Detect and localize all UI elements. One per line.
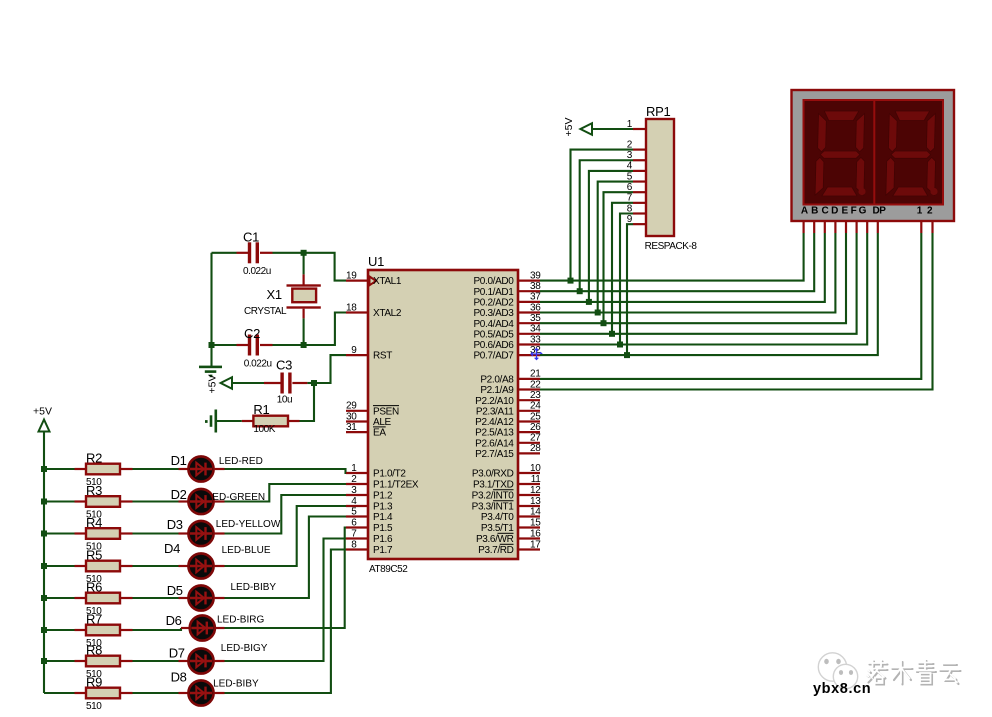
svg-text:P2.6/A14: P2.6/A14 — [475, 438, 514, 449]
pin 16 P3.6/WR — [518, 537, 540, 539]
svg-text:30: 30 — [346, 411, 357, 422]
wire RST net — [314, 355, 346, 383]
7-segment digit 2 — [886, 111, 937, 196]
LED D2 LED-GREEN — [188, 489, 213, 514]
resistor R4 — [75, 532, 87, 534]
svg-text:37: 37 — [530, 292, 541, 303]
svg-text:1: 1 — [351, 463, 357, 474]
junction rail-R3 — [41, 499, 47, 505]
svg-text:33: 33 — [530, 334, 541, 345]
svg-text:0.022u: 0.022u — [244, 359, 272, 370]
pin 7 P1.6 — [346, 537, 368, 539]
resistor R9 — [75, 692, 87, 694]
pin 5 P1.4 — [346, 515, 368, 517]
resistor R7 — [75, 629, 87, 631]
pin 11 P3.1/TXD — [518, 483, 540, 485]
pin 22 P2.1/A9 — [518, 388, 540, 390]
node X1/C2 junction — [301, 342, 307, 348]
wire P2.0 net — [540, 233, 921, 379]
junction rail-R4 — [41, 531, 47, 537]
svg-text:P2.1/A9: P2.1/A9 — [480, 385, 514, 396]
wire P0.7 net — [540, 233, 878, 355]
svg-text:PSEN: PSEN — [373, 406, 399, 417]
svg-text:U1: U1 — [368, 254, 384, 269]
pin 6 P1.5 — [346, 526, 368, 528]
svg-text:C3: C3 — [276, 358, 292, 373]
resistor R1 — [288, 420, 300, 422]
pin 18 XTAL2 — [346, 311, 368, 313]
capacitor C2 — [212, 344, 237, 346]
svg-text:26: 26 — [530, 422, 541, 433]
svg-text:0.022u: 0.022u — [243, 266, 271, 277]
svg-text:P0.7/AD7: P0.7/AD7 — [473, 351, 514, 362]
pin 3 P1.2 — [346, 494, 368, 496]
svg-text:A: A — [801, 206, 808, 217]
svg-text:D5: D5 — [167, 583, 183, 598]
svg-text:P3.2/INT0: P3.2/INT0 — [472, 491, 515, 502]
pin 32 P0.7/AD7 — [518, 354, 540, 356]
junction rail-R8 — [41, 658, 47, 664]
pin segment G — [866, 221, 868, 233]
svg-text:2: 2 — [927, 206, 933, 217]
node P0.0 junction — [568, 278, 574, 284]
svg-text:R2: R2 — [86, 451, 102, 466]
pin 34 P0.5/AD5 — [518, 333, 540, 335]
node P0.4 junction — [601, 320, 607, 326]
pin 1 RP1 — [633, 128, 646, 130]
svg-text:P2.2/A10: P2.2/A10 — [475, 396, 514, 407]
svg-text:27: 27 — [530, 433, 541, 444]
node RST/C3/R1 junction — [311, 380, 317, 386]
svg-text:P0.0/AD0: P0.0/AD0 — [473, 276, 514, 287]
svg-text:D8: D8 — [171, 670, 187, 685]
node P0.5 junction — [609, 331, 615, 337]
wire P0.3 net — [540, 233, 835, 313]
svg-text:8: 8 — [351, 539, 357, 550]
wire R2 to D1 — [133, 468, 179, 470]
svg-text:16: 16 — [530, 528, 541, 539]
pin 2 P1.1/T2EX — [346, 483, 368, 485]
pin 29 PSEN — [346, 410, 368, 412]
capacitor C3 — [232, 382, 264, 384]
op-amp U1 AT89C52 body — [368, 270, 518, 559]
svg-text:P3.0/RXD: P3.0/RXD — [472, 469, 514, 480]
pin 6 RP1 — [633, 191, 646, 193]
svg-text:RESPACK-8: RESPACK-8 — [645, 241, 698, 252]
wire D2 to U1 pin 2 — [214, 500, 225, 502]
LED D7 LED-BIGY — [188, 648, 213, 673]
LED D5 LED-BIBY — [188, 585, 213, 610]
svg-text:LED-RED: LED-RED — [219, 456, 263, 467]
svg-text:15: 15 — [530, 517, 541, 528]
resistor R5 — [75, 565, 87, 567]
wire P0.1 net — [540, 233, 814, 291]
svg-text:P1.2: P1.2 — [373, 491, 393, 502]
node P0.1 junction — [577, 288, 583, 294]
svg-text:29: 29 — [346, 401, 357, 412]
pin 4 RP1 — [633, 170, 646, 172]
svg-text:36: 36 — [530, 302, 541, 313]
svg-text:P3.4/T0: P3.4/T0 — [481, 512, 514, 523]
wire D3 to U1 pin 3 — [214, 532, 225, 534]
svg-text:P0.6/AD6: P0.6/AD6 — [473, 340, 514, 351]
pin 4 P1.3 — [346, 505, 368, 507]
svg-text:D: D — [831, 206, 838, 217]
svg-text:P2.4/A12: P2.4/A12 — [475, 417, 514, 428]
svg-text:LED-BIRG: LED-BIRG — [217, 615, 264, 626]
wire R9 to D8 — [133, 692, 179, 694]
svg-text:D3: D3 — [167, 517, 183, 532]
pin 8 RP1 — [633, 212, 646, 214]
pin 38 P0.1/AD1 — [518, 290, 540, 292]
capacitor C1 — [212, 252, 237, 254]
svg-text:+5V: +5V — [563, 118, 575, 137]
wire R1 to ground — [217, 420, 242, 422]
move cursor mark pin 32 — [531, 349, 542, 360]
LED D3 LED-YELLOW — [188, 521, 213, 546]
svg-text:12: 12 — [530, 485, 541, 496]
svg-text:P0.1/AD1: P0.1/AD1 — [473, 287, 514, 298]
svg-text:LED-BLUE: LED-BLUE — [222, 545, 271, 556]
7-segment display window — [804, 100, 944, 205]
node C1/X1 junction — [301, 250, 307, 256]
LED D6 LED-BIRG — [190, 615, 215, 640]
svg-text:P3.3/INT1: P3.3/INT1 — [472, 502, 515, 513]
svg-text:R6: R6 — [86, 580, 102, 595]
wire RP1 tap 3 — [580, 160, 633, 291]
resistor R3 — [75, 500, 87, 502]
junction rail-R5 — [41, 563, 47, 569]
pin 21 P2.0/A8 — [518, 378, 540, 380]
node P0.3 junction — [595, 310, 601, 316]
pin segment F — [855, 221, 857, 233]
svg-text:P3.5/T1: P3.5/T1 — [481, 523, 514, 534]
wire RP1 tap 2 — [571, 150, 634, 281]
svg-text:G: G — [859, 206, 867, 217]
pin 14 P3.4/T0 — [518, 515, 540, 517]
svg-text:C2: C2 — [244, 326, 260, 341]
pin 10 P3.0/RXD — [518, 472, 540, 474]
svg-text:21: 21 — [530, 369, 541, 380]
svg-text:XTAL2: XTAL2 — [373, 308, 402, 319]
svg-text:28: 28 — [530, 443, 541, 454]
pin 39 P0.0/AD0 — [518, 280, 540, 282]
wire R3 to D2 — [133, 500, 179, 502]
resistor R6 — [75, 597, 87, 599]
svg-text:39: 39 — [530, 270, 541, 281]
wire D8 to U1 pin 8 — [214, 692, 225, 694]
power arrow +5V at C3 — [221, 377, 232, 389]
wire D7 to U1 pin 7 — [214, 660, 225, 662]
svg-text:17: 17 — [530, 539, 541, 550]
wire X1 to C2 row — [303, 318, 305, 345]
wire P2.1 net — [540, 233, 933, 390]
pin segment A — [802, 221, 804, 233]
svg-text:D4: D4 — [164, 541, 180, 556]
wire C3 junction to R1 — [300, 383, 315, 421]
svg-text:P1.4: P1.4 — [373, 512, 393, 523]
svg-text:2: 2 — [351, 474, 357, 485]
svg-text:LED-BIBY: LED-BIBY — [231, 582, 277, 593]
svg-text:P0.2/AD2: P0.2/AD2 — [473, 298, 514, 309]
svg-text:+5V: +5V — [33, 406, 52, 418]
wire R4 to D3 — [133, 532, 179, 534]
pin 3 RP1 — [633, 159, 646, 161]
pin 24 P2.3/A11 — [518, 410, 540, 412]
pin 28 P2.7/A15 — [518, 452, 540, 454]
wire P0.0 net — [540, 233, 804, 281]
svg-text:XTAL1: XTAL1 — [373, 276, 402, 287]
svg-text:P2.0/A8: P2.0/A8 — [480, 375, 514, 386]
pin 35 P0.4/AD4 — [518, 322, 540, 324]
pin 15 P3.5/T1 — [518, 526, 540, 528]
svg-text:38: 38 — [530, 281, 541, 292]
svg-text:13: 13 — [530, 496, 541, 507]
LED D1 LED-RED — [188, 456, 213, 481]
power arrow +5V — [39, 420, 50, 432]
wire left rail C1-C2 — [210, 253, 212, 345]
svg-text:510: 510 — [86, 701, 102, 712]
svg-text:LED-YELLOW: LED-YELLOW — [216, 519, 281, 530]
svg-text:4: 4 — [351, 496, 357, 507]
node P0.6 junction — [617, 342, 623, 348]
wire RP1 tap 9 — [627, 224, 633, 355]
pin segment DP — [877, 221, 879, 233]
svg-text:P1.3: P1.3 — [373, 502, 393, 513]
svg-text:P0.3/AD3: P0.3/AD3 — [473, 308, 514, 319]
svg-text:RST: RST — [373, 351, 392, 362]
svg-text:C: C — [821, 206, 828, 217]
svg-text:100K: 100K — [253, 424, 275, 435]
pin 37 P0.2/AD2 — [518, 301, 540, 303]
svg-text:P2.7/A15: P2.7/A15 — [475, 449, 514, 460]
svg-text:R1: R1 — [253, 402, 269, 417]
svg-text:ybx8.cn: ybx8.cn — [813, 681, 871, 697]
svg-text:+5V: +5V — [207, 375, 219, 394]
wire R6 to D5 — [133, 597, 179, 599]
wire rail to R3 — [44, 500, 75, 502]
svg-text:RP1: RP1 — [646, 104, 670, 119]
junction rail-R7 — [41, 627, 47, 633]
wire rail to R2 — [44, 468, 75, 470]
wire RP1 tap 4 — [589, 171, 633, 302]
svg-text:R3: R3 — [86, 483, 102, 498]
wire rail to R6 — [44, 597, 75, 599]
svg-text:D1: D1 — [171, 453, 187, 468]
svg-text:P3.7/RD: P3.7/RD — [478, 545, 513, 556]
wire D6 to U1 pin 6 — [215, 627, 224, 629]
wire RP1 tap 5 — [598, 182, 633, 313]
resistor pack RP1 — [646, 119, 674, 236]
pin 36 P0.3/AD3 — [518, 311, 540, 313]
7-segment display frame — [792, 90, 955, 221]
wire P0.6 net — [540, 233, 867, 345]
pin digit 2 — [931, 221, 933, 233]
svg-text:10: 10 — [530, 463, 541, 474]
pin segment B — [813, 221, 815, 233]
watermark text — [868, 661, 961, 685]
node rail/C2 junction — [209, 342, 215, 348]
wire D5 to U1 pin 5 — [214, 597, 225, 599]
pin 2 RP1 — [633, 149, 646, 151]
svg-text:14: 14 — [530, 506, 541, 517]
pin 13 P3.3/INT1 — [518, 505, 540, 507]
svg-text:P1.1/T2EX: P1.1/T2EX — [373, 480, 419, 491]
ground below C2 — [210, 345, 212, 366]
svg-text:AT89C52: AT89C52 — [369, 564, 408, 575]
svg-text:LED-BIGY: LED-BIGY — [221, 643, 268, 654]
svg-text:7: 7 — [351, 528, 357, 539]
wire rail to R4 — [44, 532, 75, 534]
wire P0.2 net — [540, 233, 825, 302]
svg-text:P2.3/A11: P2.3/A11 — [476, 406, 514, 417]
wire RP1 tap 6 — [604, 192, 634, 323]
pin 9 RP1 — [633, 223, 646, 225]
junction rail-R2 — [41, 466, 47, 472]
svg-text:P1.0/T2: P1.0/T2 — [373, 469, 406, 480]
wire rail to R7 — [44, 629, 75, 631]
svg-text:P3.1/TXD: P3.1/TXD — [473, 480, 514, 491]
pin 25 P2.4/A12 — [518, 420, 540, 422]
svg-text:EA: EA — [373, 428, 386, 439]
pin 31 EA — [346, 431, 368, 433]
pin segment D — [834, 221, 836, 233]
svg-text:E: E — [841, 206, 848, 217]
wire P0.4 net — [540, 233, 846, 323]
svg-text:34: 34 — [530, 324, 541, 335]
svg-text:10u: 10u — [277, 395, 292, 406]
pin 27 P2.6/A14 — [518, 442, 540, 444]
svg-text:DP: DP — [872, 206, 886, 217]
svg-text:LED-BIBY: LED-BIBY — [213, 679, 259, 690]
svg-text:D7: D7 — [169, 646, 185, 661]
svg-text:9: 9 — [351, 345, 357, 356]
wire P0.5 net — [540, 233, 857, 334]
node P0.7 junction — [624, 352, 630, 358]
wire rail to R5 — [44, 565, 75, 567]
svg-text:3: 3 — [351, 485, 357, 496]
svg-text:R9: R9 — [86, 675, 102, 690]
resistor R8 — [75, 660, 87, 662]
svg-text:R8: R8 — [86, 643, 102, 658]
LED D8 LED-BIBY — [188, 680, 213, 705]
wire rail to R9 — [44, 692, 75, 694]
pin 30 ALE — [346, 420, 368, 422]
wire C2 to XTAL2 — [304, 313, 346, 346]
svg-text:P3.6/WR: P3.6/WR — [476, 534, 514, 545]
svg-text:22: 22 — [530, 379, 541, 390]
node P0.2 junction — [586, 299, 592, 305]
watermark logo — [818, 653, 857, 689]
pin 1 P1.0/T2 — [346, 472, 368, 474]
svg-text:P1.5: P1.5 — [373, 523, 393, 534]
pin segment E — [845, 221, 847, 233]
wire RP1 tap 8 — [620, 214, 633, 345]
svg-text:P0.4/AD4: P0.4/AD4 — [473, 319, 514, 330]
svg-text:6: 6 — [351, 517, 357, 528]
7-segment digit 1 — [815, 111, 866, 196]
pin digit 1 — [920, 221, 922, 233]
svg-text:F: F — [851, 206, 857, 217]
pin 5 RP1 — [633, 180, 646, 182]
clock mark XTAL1 — [370, 277, 377, 286]
svg-text:5: 5 — [351, 506, 357, 517]
svg-text:25: 25 — [530, 411, 541, 422]
crystal X1 — [303, 253, 305, 275]
pin 33 P0.6/AD6 — [518, 343, 540, 345]
pin 23 P2.2/A10 — [518, 399, 540, 401]
pin 17 P3.7/RD — [518, 548, 540, 550]
wire D4 to U1 pin 4 — [214, 565, 225, 567]
wire R5 to D4 — [133, 565, 179, 567]
junction rail-R6 — [41, 595, 47, 601]
pin 8 P1.7 — [346, 548, 368, 550]
svg-text:31: 31 — [346, 422, 357, 433]
svg-text:CRYSTAL: CRYSTAL — [244, 306, 287, 317]
wire C1 to XTAL1 — [273, 253, 347, 281]
LED D4 LED-BLUE — [188, 553, 213, 578]
power arrow +5V at RP1 — [592, 128, 633, 130]
svg-text:23: 23 — [530, 390, 541, 401]
svg-text:D2: D2 — [171, 487, 187, 502]
svg-text:C1: C1 — [243, 230, 259, 245]
wire D1 to U1 pin 1 — [214, 468, 225, 470]
pin 9 RST — [346, 354, 368, 356]
svg-text:P1.7: P1.7 — [373, 545, 393, 556]
svg-text:35: 35 — [530, 313, 541, 324]
svg-text:18: 18 — [346, 302, 357, 313]
svg-text:P0.5/AD5: P0.5/AD5 — [473, 329, 514, 340]
svg-text:11: 11 — [531, 474, 542, 485]
svg-text:R7: R7 — [86, 612, 102, 627]
pin segment C — [824, 221, 826, 233]
svg-text:R5: R5 — [86, 548, 102, 563]
pin 7 RP1 — [633, 202, 646, 204]
ground at R1 — [215, 410, 218, 433]
wire R7 to D6 — [133, 628, 182, 630]
svg-text:1: 1 — [917, 206, 923, 217]
wire R8 to D7 — [133, 660, 179, 662]
wire RP1 tap 7 — [612, 203, 633, 334]
pin 26 P2.5/A13 — [518, 431, 540, 433]
svg-text:X1: X1 — [267, 287, 282, 302]
power +5V rail — [43, 432, 45, 693]
pin 12 P3.2/INT0 — [518, 494, 540, 496]
resistor R2 — [75, 468, 87, 470]
svg-text:24: 24 — [530, 401, 541, 412]
wire rail to R8 — [44, 660, 75, 662]
7-segment digit divider — [873, 100, 875, 205]
pin 19 XTAL1 — [346, 280, 368, 282]
decimal point digit 1 — [858, 188, 865, 195]
svg-text:19: 19 — [346, 270, 357, 281]
svg-text:R4: R4 — [86, 515, 102, 530]
svg-text:P1.6: P1.6 — [373, 534, 393, 545]
svg-text:P2.5/A13: P2.5/A13 — [475, 428, 514, 439]
decimal point digit 2 — [930, 188, 937, 195]
svg-text:D6: D6 — [166, 613, 182, 628]
svg-text:B: B — [811, 206, 818, 217]
